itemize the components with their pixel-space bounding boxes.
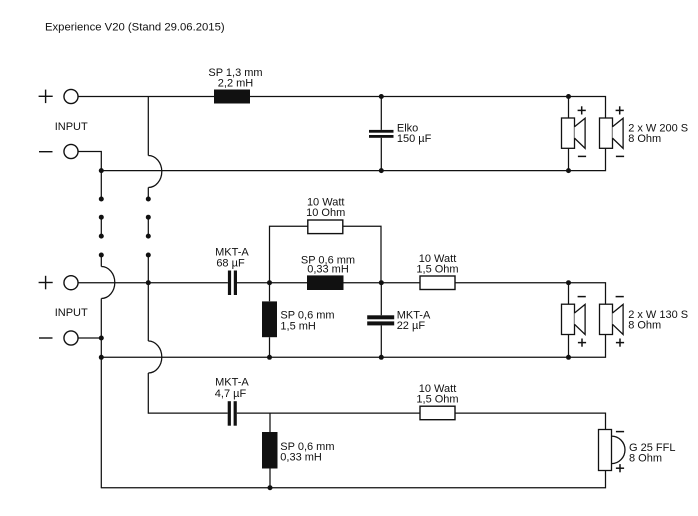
wire hop over W3 (101, 267, 115, 299)
wire x=101 down to bottom rail (100, 357, 102, 488)
label SP 0,6 mm / 1,5 mH (280, 309, 334, 332)
wire W4 mid return rail (101, 335, 605, 358)
wire W5b tweeter feed right (237, 413, 606, 429)
label G 25 FFL / 8 Ohm (629, 442, 675, 465)
resistor R1 10 Ohm (308, 220, 343, 234)
svg-text:0,33 mH: 0,33 mH (280, 452, 322, 464)
svg-text:2,2 mH: 2,2 mH (218, 78, 254, 90)
svg-text:INPUT: INPUT (55, 307, 88, 319)
svg-text:22 µF: 22 µF (397, 320, 426, 332)
node link dots column x=101 (99, 197, 104, 258)
inductor L3 1,5 mH (262, 283, 277, 358)
terminal - (top input) (39, 144, 78, 158)
svg-text:MKT-A: MKT-A (215, 377, 249, 389)
svg-text:1,5 mH: 1,5 mH (280, 320, 316, 332)
inductor L2 0,33 mH (307, 275, 344, 290)
tweeter G 25 FFL (599, 430, 625, 473)
label 10 Watt / 10 Ohm (306, 197, 345, 220)
wire x=148 down through W3 junction (147, 255, 149, 341)
capacitor C1 Elko (369, 97, 394, 171)
label SP 1,3 mm / 2,2 mH (208, 67, 262, 90)
speaker S4 right W 130 S (600, 297, 625, 347)
terminal - (mid input) (39, 331, 78, 345)
wire x=101 from W2 to link dots (100, 171, 102, 199)
label 10 Watt / 1,5 Ohm (bottom) (416, 383, 458, 406)
speaker S2 right W 200 S (600, 106, 625, 156)
speaker S1 left W 200 S (562, 97, 587, 171)
wire to link dot (147, 188, 149, 199)
wire link x=148 (147, 217, 149, 236)
junction dot tweeter return (268, 485, 273, 490)
speaker S3 left W 130 S (562, 283, 587, 357)
label SP 0,6 mm / 0,33 mH (301, 254, 355, 275)
wire hop over W4 (148, 341, 162, 373)
wire x=101 to hop (100, 255, 102, 267)
svg-text:1,5 Ohm: 1,5 Ohm (416, 263, 458, 275)
svg-text:68 µF: 68 µF (216, 257, 245, 269)
terminal + (top input) (39, 89, 78, 103)
label 2 x W 200 S / 8 Ohm (628, 123, 688, 146)
label MKT-A / 22 µF (397, 310, 431, 333)
svg-text:10 Ohm: 10 Ohm (306, 207, 345, 219)
svg-text:8 Ohm: 8 Ohm (629, 453, 662, 465)
wire W6 bottom return rail (101, 471, 605, 488)
svg-text:Experience V20 (Stand 29.06.20: Experience V20 (Stand 29.06.2015) (45, 22, 225, 34)
svg-text:8 Ohm: 8 Ohm (628, 319, 661, 331)
svg-text:1,5 Ohm: 1,5 Ohm (416, 394, 458, 406)
inductor L4 0,33 mH (262, 413, 278, 488)
capacitor C2 68 µF (228, 271, 237, 296)
svg-text:0,33 mH: 0,33 mH (307, 264, 349, 276)
label MKT-A / 4,7 µF (215, 377, 250, 400)
label MKT-A / 68 µF (215, 247, 249, 270)
junction dots mid section (99, 280, 571, 360)
label 2 x W 130 S / 8 Ohm (628, 309, 688, 332)
label 10 Watt / 1,5 Ohm (mid) (416, 253, 458, 276)
capacitor C4 4,7 µF (228, 401, 237, 426)
wire W3a mid plus rail left (78, 282, 228, 284)
capacitor C3 22 µF (367, 283, 394, 358)
svg-text:150 µF: 150 µF (397, 133, 432, 145)
resistor R2 1,5 Ohm (420, 276, 455, 290)
node link dots column x=148 (146, 197, 151, 258)
svg-text:INPUT: INPUT (55, 121, 88, 133)
svg-text:8 Ohm: 8 Ohm (628, 133, 661, 145)
resistor R1 loop wire (270, 226, 382, 282)
junction dots top section (99, 94, 571, 173)
wire from mid minus terminal (78, 337, 101, 339)
wire W5a tweeter feed left (148, 412, 227, 414)
wire x=148 to tweeter feed corner (147, 373, 149, 414)
wire link x=101 (100, 217, 102, 236)
wire x=101 to mid minus node (100, 299, 102, 339)
wire hop over W2 (148, 156, 162, 188)
resistor R3 1,5 Ohm (420, 406, 455, 420)
wire W3b mid plus rail right (237, 283, 606, 305)
label SP 0,6 mm / 0,33 mH (tweeter) (280, 441, 334, 464)
terminal + (mid input) (39, 276, 78, 290)
inductor L1 (214, 90, 250, 104)
label Elko / 150 µF (397, 122, 432, 145)
wire from top minus terminal (78, 152, 101, 171)
wire W2 top return rail (101, 148, 605, 170)
wire branch x=148 from W1 (147, 97, 149, 156)
wire W1 top plus rail (78, 97, 605, 119)
svg-text:4,7 µF: 4,7 µF (215, 388, 247, 400)
wire x=101 mid minus to W4 (100, 338, 102, 357)
